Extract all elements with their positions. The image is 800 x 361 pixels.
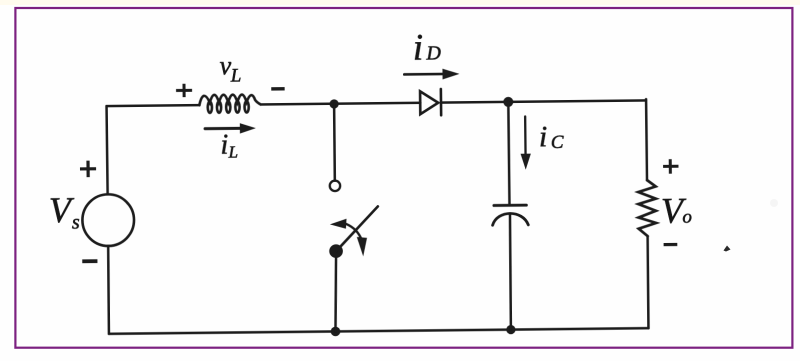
inductor L loop 1 [208, 102, 212, 113]
node: junction top of switch [329, 99, 338, 108]
plus sign above resistor [663, 159, 679, 174]
scan speck [724, 246, 731, 252]
switch branch lower wire [335, 258, 337, 331]
plus sign left of inductor [176, 84, 192, 98]
node: junction bottom of capacitor [506, 325, 515, 334]
wire top-left segment [107, 104, 200, 107]
capacitor C curved plate [492, 213, 528, 225]
switch pivot dot [329, 244, 343, 258]
node: junction bottom of switch [331, 327, 341, 337]
svg-text:C: C [551, 132, 564, 153]
wire left side upper [107, 106, 108, 194]
svg-text:i: i [413, 28, 424, 69]
inductor L loop 4 [235, 101, 239, 112]
current arrow iC head [521, 154, 531, 170]
switch branch upper wire [333, 104, 336, 181]
minus sign below source [82, 259, 97, 263]
diode D triangle [420, 91, 438, 114]
node: junction top of capacitor [503, 97, 513, 107]
minus sign right of inductor [271, 87, 284, 91]
source Vs circle [82, 194, 134, 246]
svg-text:i: i [539, 120, 548, 153]
svg-text:i: i [220, 129, 228, 160]
switch motion arrowhead left [330, 219, 347, 229]
switch motion arc [347, 224, 362, 240]
inductor L loop 5 [244, 101, 248, 112]
wire right side lower [648, 236, 649, 328]
capacitor C top plate [494, 204, 526, 207]
svg-text:o: o [682, 207, 692, 228]
wire inductor to diode [261, 103, 420, 105]
switch open terminal circle [330, 181, 341, 192]
current arrow iD line [404, 73, 443, 76]
faint smudge [770, 199, 778, 207]
wire diode to top-right corner [441, 100, 646, 102]
current arrow iD head [442, 69, 459, 80]
svg-text:L: L [230, 66, 242, 87]
current arrow iL line [205, 127, 241, 130]
svg-text:s: s [72, 212, 80, 234]
current arrow iC line [524, 116, 527, 154]
inductor L loop 2 [217, 102, 221, 113]
switch motion arrowhead down [357, 237, 367, 257]
capacitor branch upper wire [508, 102, 509, 205]
diode D cathode bar [440, 89, 443, 115]
plus sign above source [80, 161, 96, 178]
inductor L loop 3 [226, 101, 230, 112]
minus sign below resistor [664, 243, 678, 246]
current arrow iL head [240, 123, 256, 134]
svg-text:L: L [228, 143, 239, 162]
capacitor branch lower wire [510, 215, 511, 329]
inductor L (coil arcs) [199, 94, 261, 105]
svg-text:D: D [425, 43, 441, 65]
wire left side lower [108, 246, 109, 334]
resistor R load zigzag [638, 180, 656, 236]
wire bottom [109, 328, 649, 334]
switch arm [336, 206, 378, 250]
wire right side upper (to resistor) [645, 99, 648, 180]
